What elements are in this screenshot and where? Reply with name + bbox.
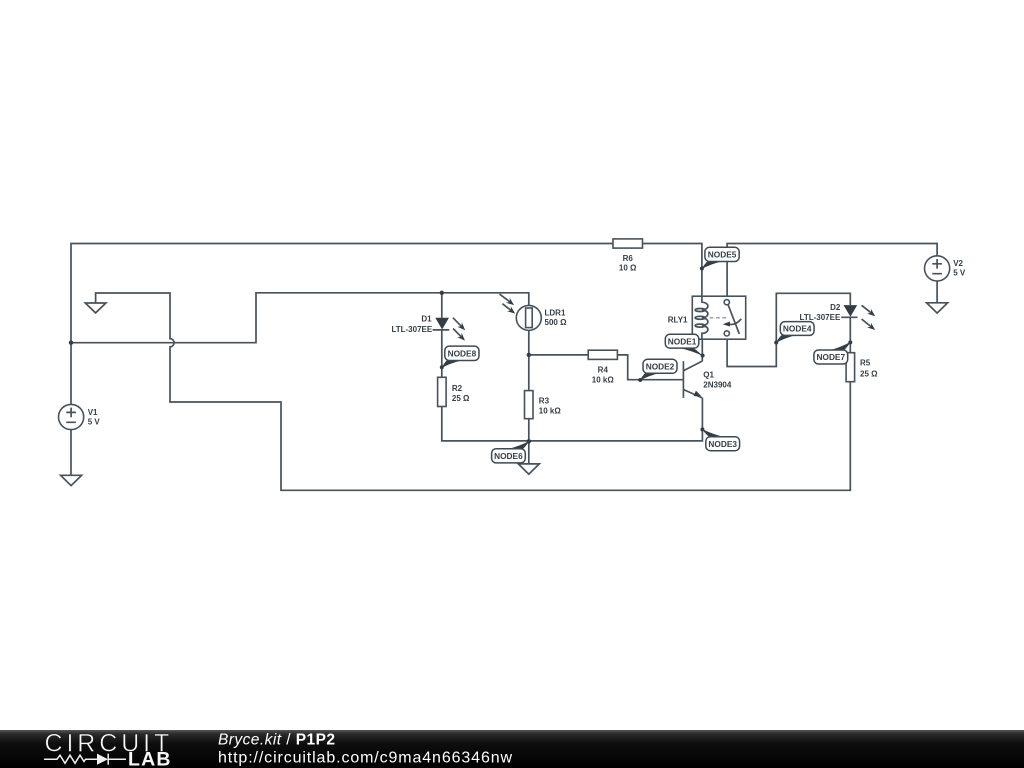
svg-text:R5: R5	[860, 359, 871, 368]
wire D1 anode stub	[441, 293, 443, 318]
svg-text:R2: R2	[452, 384, 463, 393]
svg-text:NODE6: NODE6	[494, 451, 523, 461]
resistor R2	[438, 377, 470, 406]
svg-text:NODE8: NODE8	[448, 348, 477, 358]
svg-text:V2: V2	[953, 259, 963, 268]
svg-text:http://circuitlab.com/c9ma4n66: http://circuitlab.com/c9ma4n66346nw	[218, 750, 513, 767]
svg-text:25 Ω: 25 Ω	[860, 370, 878, 379]
svg-text:NODE7: NODE7	[817, 352, 846, 362]
junction node at R3 bottom	[527, 439, 531, 443]
junction node at D1 top	[440, 291, 444, 295]
resistor R3	[525, 391, 562, 419]
wire D1 cathode to R2, R2 to bottom wire to Q1 emitter	[442, 330, 703, 441]
voltage source V2	[925, 256, 966, 281]
svg-text:LAB: LAB	[128, 748, 172, 768]
svg-text:R6: R6	[623, 254, 634, 263]
svg-text:10 kΩ: 10 kΩ	[539, 407, 562, 416]
svg-text:10 Ω: 10 Ω	[619, 264, 637, 273]
svg-text:Q1: Q1	[703, 371, 714, 380]
footer title text	[218, 732, 335, 749]
transistor Q1 2N3904	[683, 361, 731, 398]
svg-text:V1: V1	[88, 408, 98, 417]
node NODE7 label	[814, 340, 852, 364]
ground (top-left)	[85, 303, 106, 313]
wire LDR junction to R4	[529, 354, 588, 356]
node NODE2 label	[638, 359, 677, 382]
ground (below V2)	[927, 303, 948, 313]
svg-text:NODE2: NODE2	[646, 361, 675, 371]
wire V1 bottom to ground	[70, 430, 72, 476]
node NODE5 label	[700, 247, 739, 270]
svg-text:NODE4: NODE4	[783, 324, 812, 334]
svg-text:R4: R4	[598, 366, 609, 375]
svg-text:10 kΩ: 10 kΩ	[592, 376, 615, 385]
wire top rail left: V1 top to R6 left, down to V1	[71, 244, 613, 405]
wire R4 to Q1 base	[617, 355, 683, 380]
svg-text:LDR1: LDR1	[545, 309, 566, 318]
ground (below NODE6)	[518, 464, 539, 474]
wire relay coil bottom to Q1 collector	[701, 339, 703, 361]
relay RLY1	[668, 296, 746, 339]
svg-text:2N3904: 2N3904	[703, 381, 732, 390]
wire ground net: top-left ground to bottom rail to R5, with hop	[96, 293, 851, 490]
photoresistor LDR1	[500, 294, 568, 330]
svg-text:R3: R3	[539, 397, 550, 406]
footer url text	[218, 750, 513, 767]
wire D2 cathode to R5	[849, 317, 851, 352]
LED D2	[800, 303, 876, 330]
node NODE6 label	[492, 441, 530, 463]
wire R3 bottom to ground stem	[528, 419, 530, 464]
svg-text:LTL-307EE: LTL-307EE	[391, 325, 432, 334]
wire branch from V1 node to LDR top rail	[71, 293, 529, 343]
logo CIRCUIT LAB	[44, 729, 173, 768]
wire V2 bottom to ground	[936, 281, 938, 303]
resistor R6	[613, 239, 643, 273]
footer bar	[0, 730, 1024, 768]
svg-text:D1: D1	[421, 315, 432, 324]
node NODE1 label	[665, 334, 704, 357]
node NODE8 label	[440, 346, 479, 369]
junction node at V1 branch	[69, 341, 73, 345]
resistor R5	[846, 353, 878, 382]
svg-text:5 V: 5 V	[88, 418, 101, 427]
LED D1	[391, 315, 465, 341]
node NODE3 label	[700, 427, 739, 450]
svg-text:RLY1: RLY1	[668, 315, 688, 324]
wire relay switch to D2	[727, 293, 850, 366]
svg-text:D2: D2	[830, 303, 841, 312]
wire rail from R6 right to relay coil	[643, 244, 702, 297]
voltage source V1	[59, 404, 101, 429]
svg-text:NODE5: NODE5	[708, 250, 737, 260]
svg-text:25 Ω: 25 Ω	[452, 394, 470, 403]
resistor R4	[588, 350, 617, 385]
ground (below V1)	[61, 475, 82, 485]
svg-text:NODE3: NODE3	[708, 439, 737, 449]
junction node at LDR/R3/R4	[527, 353, 531, 357]
svg-text:500 Ω: 500 Ω	[545, 318, 568, 327]
node NODE4 label	[774, 322, 814, 345]
svg-text:5 V: 5 V	[953, 269, 966, 278]
svg-text:NODE1: NODE1	[668, 336, 697, 346]
wire LDR bottom to R3	[528, 330, 530, 390]
wire rail right: relay switch top to V2	[727, 244, 937, 300]
svg-text:Bryce.kit / P1P2: Bryce.kit / P1P2	[218, 732, 335, 749]
